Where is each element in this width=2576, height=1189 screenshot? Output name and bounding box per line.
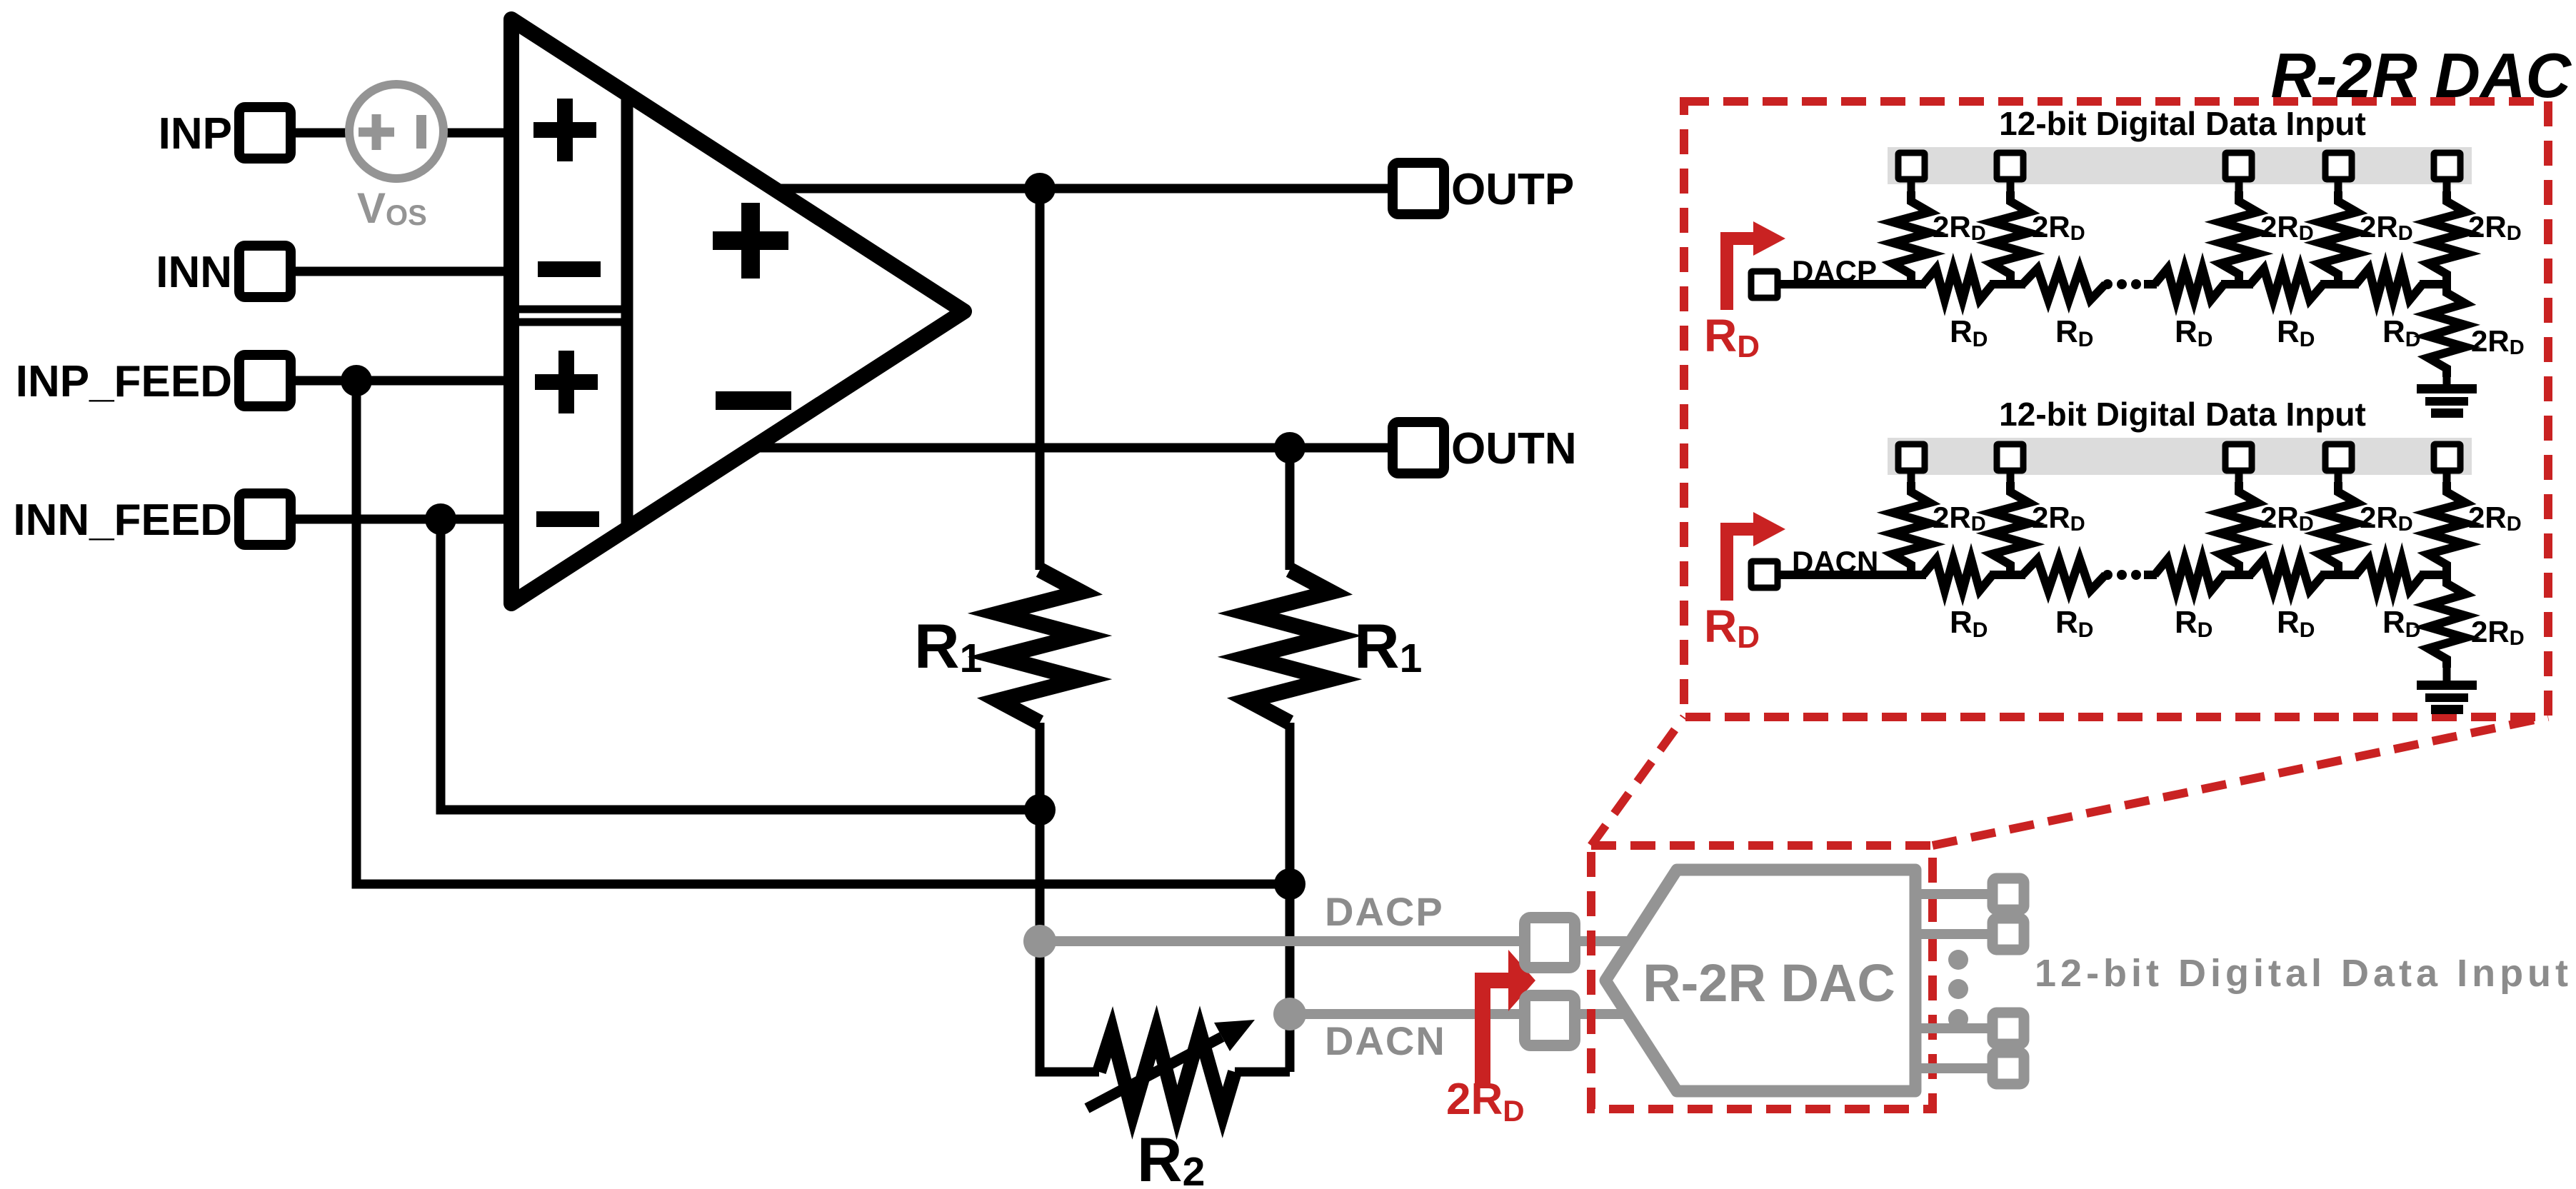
highlight bar DACP ladder (1888, 147, 2472, 184)
terminal INN (239, 246, 291, 297)
resistor 2RD shunt 1 (DACP) (1893, 191, 1930, 284)
terminal INP (239, 107, 291, 159)
svg-text:DACP: DACP (1325, 889, 1444, 934)
op-amp pin + (INP) (533, 99, 596, 161)
label R2 (1137, 1124, 1205, 1189)
label 2RD shunt 4 (DACN) (2360, 501, 2413, 536)
wire digital input pin 4 (1915, 1063, 1993, 1073)
label OUTN (1451, 424, 1577, 473)
label 2RD shunt 5 (DACN) (2468, 501, 2522, 536)
label RD (red, DACN) (1704, 601, 1760, 655)
ellipsis dots rail (DACP) (2103, 279, 2157, 289)
op-amp A1 body (511, 19, 964, 603)
svg-text:RD: RD (1950, 605, 1988, 642)
ground (DACP) (2417, 384, 2477, 418)
ellipsis dots digital bus (1948, 950, 1968, 1029)
pad bit 5 (DACN) (2434, 444, 2460, 471)
label RD series 1 (DACN) (1950, 605, 1988, 642)
op-amp + output polarity (713, 203, 788, 279)
label RD series 5 (DACP) (2382, 314, 2420, 351)
terminal INP_FEED (239, 355, 291, 406)
svg-text:2RD: 2RD (2260, 210, 2314, 245)
wire OUTN (750, 443, 1393, 453)
label VOS (357, 184, 427, 232)
op-amp input stage divider horizontal (511, 309, 627, 322)
svg-text:RD: RD (2055, 314, 2093, 351)
label 12-bit Digital Data Input (DACP ladder) (1999, 105, 2366, 142)
red dashed callout box (small) (1591, 846, 1933, 1109)
terminal DACP (1751, 271, 1778, 298)
wire terminator to ground (DACP) (2443, 376, 2451, 386)
terminal INN_FEED (239, 493, 291, 545)
label 12-bit Digital Data Input (DACN ladder) (1999, 396, 2366, 433)
resistor 2RD shunt 4 (DACP) (2320, 191, 2357, 284)
node DACN junction (gray) (1273, 998, 1306, 1030)
label RD series 3 (DACP) (2175, 314, 2212, 351)
node OUTP junction (1024, 173, 1056, 204)
label INP (159, 109, 232, 159)
pad digital input pin 2 (1993, 918, 2024, 950)
pad bit 2 (DACN) (1997, 444, 2023, 471)
wire pad 3 to resistor (DACP) (2235, 180, 2243, 194)
label RD series 1 (DACP) (1950, 314, 1988, 351)
op-amp input stage divider vertical (621, 94, 633, 528)
svg-text:R2: R2 (1137, 1124, 1205, 1189)
wire OUTN node down to R1 (1286, 448, 1295, 570)
svg-text:R-2R DAC: R-2R DAC (1643, 953, 1895, 1013)
label RD series 4 (DACP) (2277, 314, 2315, 351)
resistor RD series 2 (DACP) (2023, 269, 2105, 300)
svg-text:INN: INN (156, 248, 232, 297)
svg-text:12-bit Digital Data Input: 12-bit Digital Data Input (1999, 105, 2366, 142)
svg-text:OUTN: OUTN (1451, 424, 1577, 473)
pad bit 4 (DACN) (2325, 444, 2352, 471)
wire terminator to ground (DACN) (2443, 666, 2451, 682)
label 2RD terminator (DACN) (2471, 615, 2525, 650)
wire DACN (gray) (1290, 1009, 1635, 1019)
resistor R2 (variable) (1099, 1032, 1235, 1113)
svg-text:2RD: 2RD (2032, 501, 2085, 536)
svg-text:RD: RD (2277, 314, 2315, 351)
node B junction (INP_FEED / R1 right) (1274, 868, 1305, 900)
label 2RD shunt 5 (DACP) (2468, 210, 2522, 245)
red dashed callout diagonal left (1591, 717, 1684, 846)
resistor 2RD shunt 3 (DACP) (2220, 191, 2257, 284)
wire INN input (291, 267, 511, 276)
label INN_FEED (13, 496, 232, 545)
svg-text:DACN: DACN (1792, 545, 1878, 578)
wire OUTP (771, 184, 1393, 194)
svg-text:RD: RD (2277, 605, 2315, 642)
svg-text:INN_FEED: INN_FEED (13, 496, 232, 545)
ground (DACN) (2417, 681, 2477, 714)
pad bit 1 (DACP) (1898, 153, 1925, 179)
resistor RD series 1 (DACN) (1923, 559, 1993, 591)
svg-text:RD: RD (2175, 605, 2212, 642)
svg-text:RD: RD (1950, 314, 1988, 351)
label 2RD shunt 2 (DACN) (2032, 501, 2085, 536)
terminal DACP pad (gray) (1525, 918, 1575, 968)
svg-text:2RD: 2RD (2360, 501, 2413, 536)
label 2RD shunt 4 (DACP) (2360, 210, 2413, 245)
junction on INN_FEED wire (425, 503, 456, 535)
wire left R1 bottom to R2 corner (1040, 723, 1099, 1072)
wire digital input pin 3 (1915, 1023, 1993, 1033)
op-amp - output polarity (716, 391, 791, 410)
label R1 right (1354, 611, 1422, 681)
label DACP (1792, 254, 1877, 288)
wire OUTP node down to R2 (1036, 189, 1045, 570)
pad bit 5 (DACP) (2434, 153, 2460, 179)
label INP_FEED (16, 357, 232, 406)
svg-text:12-bit Digital Data Input: 12-bit Digital Data Input (1999, 396, 2366, 433)
wire pad 5 to resistor (DACN) (2443, 471, 2451, 485)
rail DACP ladder (1778, 280, 2447, 289)
svg-text:RD: RD (2055, 605, 2093, 642)
resistor 2RD shunt 2 (DACN) (1992, 482, 2029, 575)
pad bit 4 (DACP) (2325, 153, 2352, 179)
svg-text:2RD: 2RD (1446, 1075, 1525, 1128)
label 2RD terminator (DACP) (2471, 324, 2525, 359)
label RD series 3 (DACN) (2175, 605, 2212, 642)
wire pad 2 to resistor (DACN) (2007, 471, 2015, 485)
arrow across R2 (1087, 1020, 1255, 1108)
svg-text:2RD: 2RD (2471, 615, 2525, 650)
wire digital input pin 1 (1915, 889, 1993, 899)
terminal DACN pad (gray) (1525, 995, 1575, 1045)
svg-text:RD: RD (1704, 601, 1760, 655)
resistor RD series 3 (DACN) (2155, 559, 2224, 591)
resistor 2RD shunt 5 (DACN) (2428, 482, 2465, 575)
ellipsis dots rail (DACN) (2103, 570, 2157, 580)
svg-text:INP: INP (159, 109, 232, 159)
wire digital input pin 2 (1915, 929, 1993, 939)
red arrow RD (DACP) (1727, 221, 1785, 310)
op-amp pin - (INN) (538, 261, 601, 277)
resistor 2RD terminator (DACP) (2428, 284, 2465, 377)
svg-text:2RD: 2RD (1933, 210, 1986, 245)
resistor RD series 1 (DACP) (1923, 269, 1993, 300)
svg-text:RD: RD (2175, 314, 2212, 351)
wire pad 1 to resistor (DACN) (1908, 471, 1915, 485)
wire right R1 bottom to R2 corner (1235, 723, 1290, 1072)
wire pad 3 to resistor (DACN) (2235, 471, 2243, 485)
node DACP junction (gray) (1023, 925, 1056, 958)
svg-text:R1: R1 (914, 611, 982, 681)
pad bit 1 (DACN) (1898, 444, 1925, 471)
wire INP_FEED to node B (356, 381, 1290, 884)
label 2RD shunt 2 (DACP) (2032, 210, 2085, 245)
wire INP input (291, 129, 511, 138)
label 2RD shunt 3 (DACP) (2260, 210, 2314, 245)
label 12-bit Digital Data Input (gray) (2035, 952, 2572, 995)
label 2RD shunt 1 (DACP) (1933, 210, 1986, 245)
label R1 left (914, 611, 982, 681)
resistor 2RD terminator (DACN) (2428, 575, 2465, 668)
resistor 2RD shunt 5 (DACP) (2428, 191, 2465, 284)
pad digital input pin 1 (1993, 878, 2024, 910)
red dashed callout diagonal right (1933, 717, 2548, 846)
pad bit 3 (DACN) (2225, 444, 2252, 471)
svg-text:2RD: 2RD (2471, 324, 2525, 359)
wire pad 4 to resistor (DACN) (2335, 471, 2342, 485)
svg-text:2RD: 2RD (2260, 501, 2314, 536)
label 2RD shunt 1 (DACN) (1933, 501, 1986, 536)
op-amp pin - (INN_FEED) (536, 511, 599, 527)
resistor R1 left (998, 570, 1081, 723)
terminal OUTP (1393, 163, 1444, 214)
svg-text:DACN: DACN (1325, 1018, 1446, 1063)
pad bit 2 (DACP) (1997, 153, 2023, 179)
label 2RD shunt 3 (DACN) (2260, 501, 2314, 536)
svg-text:2RD: 2RD (2032, 210, 2085, 245)
svg-text:RD: RD (2382, 605, 2420, 642)
red arrow RD (DACN) (1727, 512, 1785, 601)
svg-text:2RD: 2RD (2468, 501, 2522, 536)
resistor RD series 5 (DACN) (2356, 559, 2422, 591)
wire DACP (gray) (1040, 936, 1635, 946)
R-2R DAC block (pentagon) (1605, 870, 1915, 1091)
svg-text:2RD: 2RD (1933, 501, 1986, 536)
resistor 2RD shunt 1 (DACN) (1893, 482, 1930, 575)
svg-text:2RD: 2RD (2360, 210, 2413, 245)
resistor RD series 4 (DACP) (2250, 269, 2323, 300)
wire pad 5 to resistor (DACP) (2443, 180, 2451, 194)
resistor RD series 5 (DACP) (2356, 269, 2422, 300)
highlight bar DACN ladder (1888, 438, 2472, 475)
title R-2R DAC (italic) (2271, 40, 2572, 111)
wire INN_FEED to node A (441, 519, 1040, 810)
svg-text:R1: R1 (1354, 611, 1422, 681)
label OUTP (1451, 165, 1574, 214)
resistor 2RD shunt 2 (DACP) (1992, 191, 2029, 284)
red dashed detail box (large) (1684, 101, 2548, 717)
label RD series 4 (DACN) (2277, 605, 2315, 642)
svg-text:VOS: VOS (357, 184, 427, 232)
rail DACN ladder (1778, 571, 2447, 579)
label RD series 2 (DACN) (2055, 605, 2093, 642)
label 2RD (red) (1446, 1075, 1525, 1128)
wire pad 1 to resistor (DACP) (1908, 180, 1915, 194)
wire INN_FEED input (291, 515, 511, 524)
resistor R1 right (1248, 570, 1331, 723)
node A junction (INN_FEED / R1 left) (1024, 794, 1056, 826)
resistor 2RD shunt 4 (DACN) (2320, 482, 2357, 575)
pad digital input pin 4 (1993, 1053, 2024, 1084)
label RD series 2 (DACP) (2055, 314, 2093, 351)
label R-2R DAC block (1643, 953, 1895, 1013)
pad digital input pin 3 (1993, 1013, 2024, 1044)
wire DACN pad to rail (1778, 571, 1785, 579)
wire pad 2 to resistor (DACP) (2007, 180, 2015, 194)
op-amp pin + (INP_FEED) (535, 351, 598, 413)
label INN (156, 248, 232, 297)
label RD series 5 (DACN) (2382, 605, 2420, 642)
junction on INP_FEED wire (341, 365, 372, 396)
pad bit 3 (DACP) (2225, 153, 2252, 179)
label DACP net (gray) (1325, 889, 1444, 934)
svg-text:INP_FEED: INP_FEED (16, 357, 232, 406)
wire INP_FEED input (291, 376, 511, 386)
resistor RD series 4 (DACN) (2250, 559, 2323, 591)
svg-text:2RD: 2RD (2468, 210, 2522, 245)
label DACN net (gray) (1325, 1018, 1446, 1063)
svg-text:RD: RD (2382, 314, 2420, 351)
red arrow 2RD at DAC input (1483, 950, 1535, 1084)
terminal DACN (1751, 561, 1778, 588)
label RD (red, DACP) (1704, 310, 1760, 364)
wire DACP pad to rail (1778, 280, 1785, 289)
wire pad 4 to resistor (DACP) (2335, 180, 2342, 194)
svg-text:12-bit Digital Data Input: 12-bit Digital Data Input (2035, 952, 2572, 995)
node OUTN junction (1274, 432, 1305, 463)
svg-text:OUTP: OUTP (1451, 165, 1574, 214)
resistor RD series 3 (DACP) (2155, 269, 2224, 300)
svg-text:R-2R DAC: R-2R DAC (2271, 40, 2572, 111)
label DACN (1792, 545, 1878, 578)
terminal OUTN (1393, 422, 1444, 473)
svg-text:DACP: DACP (1792, 254, 1877, 288)
offset source VOS circle (349, 84, 443, 179)
resistor 2RD shunt 3 (DACN) (2220, 482, 2257, 575)
svg-text:RD: RD (1704, 310, 1760, 364)
resistor RD series 2 (DACN) (2023, 559, 2105, 591)
